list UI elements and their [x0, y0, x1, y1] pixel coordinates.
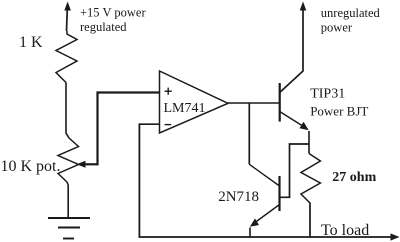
potentiometer R2 10 K pot body: [58, 138, 79, 182]
svg-text:1 K: 1 K: [19, 34, 43, 51]
svg-text:10 K pot.: 10 K pot.: [1, 158, 61, 175]
wire bottom rail to load: [139, 233, 400, 240]
wire wiper to op-amp noninverting input: [98, 93, 160, 166]
svg-text:power: power: [321, 21, 353, 35]
label TIP31 Power BJT: [310, 87, 368, 119]
svg-text:Power BJT: Power BJT: [310, 103, 368, 118]
TIP31 emitter lead with arrow: [280, 112, 309, 154]
label unregulated power: [321, 6, 381, 35]
wire R1 to potentiometer: [66, 83, 69, 139]
svg-text:2N718: 2N718: [218, 189, 259, 205]
label +15 V power regulated: [80, 5, 146, 34]
wire feedback vertical: [138, 123, 140, 237]
transistor Q2 2N718 base bar: [278, 176, 280, 211]
TIP31 collector lead to unregulated power: [280, 9, 303, 93]
resistor R3 27 ohm: [301, 154, 320, 204]
wire branch down to 2N718 base: [248, 103, 250, 164]
svg-text:unregulated: unregulated: [321, 6, 381, 20]
svg-text:27 ohm: 27 ohm: [332, 170, 376, 185]
svg-text:+15 V power: +15 V power: [80, 5, 146, 19]
op-amp plus input marking: [165, 88, 172, 95]
wire pot to ground: [67, 182, 68, 218]
svg-text:To load: To load: [321, 222, 369, 239]
op-amp U1 triangle: [160, 71, 229, 133]
op-amp minus input marking: [165, 124, 172, 126]
wire inverting input: [139, 123, 159, 125]
power arrow unregulated: [300, 2, 307, 11]
svg-text:regulated: regulated: [80, 20, 127, 34]
ground: [48, 218, 90, 239]
wire 2N718 base lead diagonal: [249, 164, 279, 186]
2N718 emitter lead with arrow to rail: [250, 205, 280, 238]
transistor Q1 TIP31 base bar: [279, 83, 281, 122]
svg-text:LM741: LM741: [164, 101, 206, 116]
wire R3 bottom to rail: [309, 203, 311, 238]
power arrow +15V regulated: [64, 2, 71, 32]
pot wiper arrow: [77, 161, 98, 168]
wire op-amp output to TIP31 base: [228, 102, 280, 104]
resistor R1 1 K: [56, 31, 77, 83]
node emitter junction to 2N718 collector: [281, 144, 310, 197]
svg-text:TIP31: TIP31: [310, 87, 345, 102]
